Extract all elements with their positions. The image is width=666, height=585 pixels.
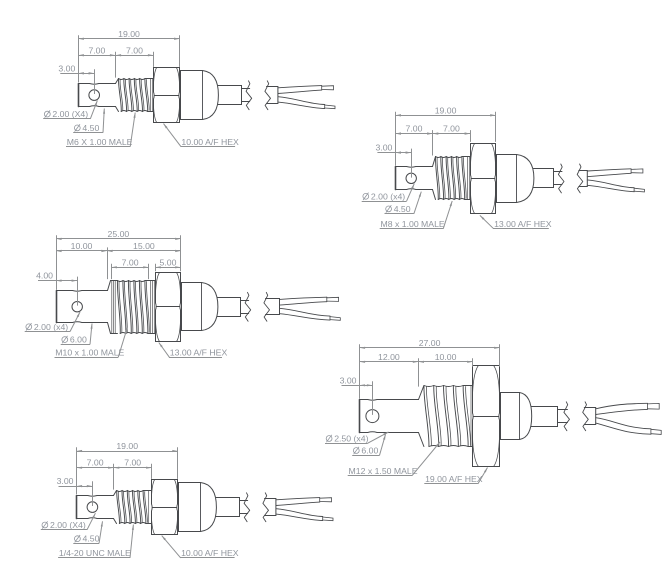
svg-text:2.00 (X4): 2.00 (X4) bbox=[50, 520, 86, 530]
dimension 25.00 (3 M10) bbox=[56, 229, 181, 240]
extension line (1 M6) bbox=[179, 35, 181, 67]
probe tip body (1 M6) bbox=[79, 84, 116, 107]
extension line (1 M6) bbox=[94, 69, 96, 94]
label 10.00 A/F HEX (5 quarter-20) bbox=[162, 536, 239, 559]
hex nut (2 M8) bbox=[471, 144, 496, 214]
extension line (1 M6) bbox=[115, 52, 117, 78]
label 19.00 A/F HEX (4 M12) bbox=[424, 468, 487, 485]
svg-text:25.00: 25.00 bbox=[108, 229, 130, 239]
svg-text:7.00: 7.00 bbox=[124, 458, 141, 468]
svg-text:19.00: 19.00 bbox=[116, 441, 138, 451]
sensor dome housing (4 M12) bbox=[501, 393, 532, 440]
svg-text:1/4-20 UNC MALE: 1/4-20 UNC MALE bbox=[59, 548, 131, 558]
svg-text:4.50: 4.50 bbox=[394, 204, 411, 214]
svg-text:2.00 (x4): 2.00 (x4) bbox=[34, 322, 68, 332]
extension line (3 M10) bbox=[56, 235, 58, 289]
wire breakout block (4 M12) bbox=[584, 408, 595, 425]
dimension 19.00 (5 quarter-20) bbox=[77, 441, 178, 452]
cable sleeve (1 M6) bbox=[218, 86, 242, 105]
external thread (5 quarter-20) bbox=[114, 491, 152, 524]
label 2.00 (X4) (1 M6) bbox=[43, 100, 97, 119]
svg-text:M12 x 1.50 MALE: M12 x 1.50 MALE bbox=[349, 466, 418, 476]
probe tip body (5 quarter-20) bbox=[77, 496, 114, 519]
svg-text:7.00: 7.00 bbox=[88, 45, 105, 55]
external thread (1 M6) bbox=[116, 79, 154, 112]
hex nut (5 quarter-20) bbox=[152, 480, 178, 535]
svg-text:7.00: 7.00 bbox=[87, 458, 104, 468]
lower lead wire (5 quarter-20) bbox=[276, 509, 333, 521]
external thread (4 M12) bbox=[419, 386, 473, 447]
cable with break symbol (5 quarter-20) bbox=[240, 493, 269, 522]
extension line (5 quarter-20) bbox=[92, 481, 94, 506]
label 10.00 A/F HEX (1 M6) bbox=[164, 124, 240, 147]
upper lead wire (1 M6) bbox=[278, 86, 334, 94]
label 2.00 (x4) (2 M8) bbox=[362, 184, 415, 202]
extension line (5 quarter-20) bbox=[113, 464, 115, 490]
extension line (2 M8) bbox=[395, 112, 397, 166]
extension line (5 quarter-20) bbox=[76, 447, 78, 494]
external thread (2 M8) bbox=[433, 157, 471, 200]
svg-text:6.00: 6.00 bbox=[361, 446, 378, 456]
svg-text:13.00 A/F HEX: 13.00 A/F HEX bbox=[494, 219, 552, 229]
dimension 3.00 (1 M6) bbox=[58, 63, 94, 74]
svg-text:2.50 (x4): 2.50 (x4) bbox=[334, 434, 368, 444]
svg-text:2.00 (X4): 2.00 (X4) bbox=[52, 109, 88, 119]
label 4.50 (2 M8) bbox=[385, 192, 422, 214]
label 13.00 A/F HEX (3 M10) bbox=[159, 343, 228, 358]
cable with break symbol (1 M6) bbox=[242, 81, 271, 110]
upper lead wire (4 M12) bbox=[596, 403, 660, 414]
extension line (2 M8) bbox=[411, 149, 413, 178]
wire breakout block (3 M10) bbox=[266, 299, 280, 315]
probe tip body (4 M12) bbox=[360, 400, 419, 433]
svg-text:13.00 A/F HEX: 13.00 A/F HEX bbox=[170, 348, 228, 358]
label 6.00 (3 M10) bbox=[61, 324, 93, 345]
cable sleeve (4 M12) bbox=[531, 407, 557, 427]
sensor dome housing (5 quarter-20) bbox=[179, 483, 217, 532]
hex nut (3 M10) bbox=[156, 273, 181, 342]
lower lead wire (4 M12) bbox=[596, 418, 662, 435]
svg-text:12.00: 12.00 bbox=[378, 352, 400, 362]
extension line (5 quarter-20) bbox=[177, 447, 179, 479]
hex nut (4 M12) bbox=[473, 366, 500, 467]
extension line (3 M10) bbox=[77, 277, 79, 306]
dimension 3.00 (4 M12) bbox=[340, 375, 373, 386]
label 6.00 (4 M12) bbox=[352, 435, 385, 456]
probe tip body (3 M10) bbox=[57, 291, 108, 323]
dimension 5.00 (3 M10) bbox=[155, 257, 181, 268]
label M8 x 1.00 MALE (2 M8) bbox=[380, 201, 453, 229]
svg-text:M10 x 1.00 MALE: M10 x 1.00 MALE bbox=[55, 348, 124, 358]
label 4.50 (5 quarter-20) bbox=[73, 521, 102, 543]
svg-text:15.00: 15.00 bbox=[133, 241, 155, 251]
upper lead wire (3 M10) bbox=[280, 297, 339, 305]
dimension 7.00 (1 M6) bbox=[116, 45, 154, 56]
svg-text:3.00: 3.00 bbox=[340, 375, 357, 385]
svg-text:19.00: 19.00 bbox=[118, 29, 140, 39]
wire breakout block (2 M8) bbox=[579, 171, 588, 187]
dimension 7.00 (2 M8) bbox=[433, 124, 471, 135]
svg-text:6.00: 6.00 bbox=[70, 335, 87, 345]
cross-drilled hole (5 quarter-20) bbox=[87, 502, 98, 513]
external thread (3 M10) bbox=[108, 281, 156, 334]
svg-text:2.00 (x4): 2.00 (x4) bbox=[371, 191, 405, 201]
svg-text:27.00: 27.00 bbox=[419, 338, 441, 348]
svg-text:3.00: 3.00 bbox=[57, 476, 74, 486]
cable sleeve (5 quarter-20) bbox=[216, 498, 240, 517]
svg-text:10.00: 10.00 bbox=[71, 241, 93, 251]
svg-text:M6 X 1.00 MALE: M6 X 1.00 MALE bbox=[67, 137, 133, 147]
probe tip body (2 M8) bbox=[396, 167, 433, 190]
svg-text:4.50: 4.50 bbox=[83, 534, 100, 544]
extension line (1 M6) bbox=[153, 52, 155, 67]
sensor dome housing (2 M8) bbox=[497, 155, 534, 203]
svg-text:7.00: 7.00 bbox=[443, 124, 460, 134]
dimension 3.00 (5 quarter-20) bbox=[57, 476, 93, 487]
cable sleeve (3 M10) bbox=[217, 298, 240, 317]
extension line (2 M8) bbox=[495, 112, 497, 142]
cross-drilled hole (1 M6) bbox=[89, 90, 100, 101]
label 2.00 (x4) (3 M10) bbox=[25, 312, 80, 332]
dimension 7.00 (2 M8) bbox=[395, 124, 432, 135]
label M6 X 1.00 MALE (1 M6) bbox=[66, 113, 136, 147]
extension line (3 M10) bbox=[111, 264, 113, 279]
lower lead wire (3 M10) bbox=[280, 308, 341, 320]
extension line (4 M12) bbox=[359, 344, 361, 398]
extension line (5 quarter-20) bbox=[151, 464, 153, 479]
dimension 10.00 (3 M10) bbox=[56, 241, 107, 252]
dimension 7.00 (1 M6) bbox=[78, 45, 115, 56]
dimension 15.00 (3 M10) bbox=[107, 241, 181, 252]
extension line (1 M6) bbox=[78, 35, 80, 82]
dimension 7.00 (3 M10) bbox=[111, 257, 149, 268]
dimension 3.00 (2 M8) bbox=[375, 143, 411, 154]
label M12 x 1.50 MALE (4 M12) bbox=[348, 442, 440, 476]
svg-text:M8 x 1.00 MALE: M8 x 1.00 MALE bbox=[381, 219, 445, 229]
lower lead wire (2 M8) bbox=[587, 180, 644, 192]
dimension 19.00 (2 M8) bbox=[395, 105, 495, 116]
extension line (4 M12) bbox=[418, 358, 420, 386]
label 2.00 (X4) (5 quarter-20) bbox=[41, 513, 96, 530]
dimension 7.00 (5 quarter-20) bbox=[114, 458, 152, 469]
cable with break symbol (2 M8) bbox=[554, 164, 583, 193]
cross-drilled hole (4 M12) bbox=[366, 410, 379, 423]
lower lead wire (1 M6) bbox=[278, 97, 335, 109]
svg-text:10.00: 10.00 bbox=[435, 352, 457, 362]
label 4.50 (1 M6) bbox=[73, 109, 105, 133]
extension line (2 M8) bbox=[432, 130, 434, 155]
wire breakout block (1 M6) bbox=[267, 87, 278, 104]
cable with break symbol (4 M12) bbox=[558, 402, 589, 431]
svg-text:19.00 A/F HEX: 19.00 A/F HEX bbox=[425, 474, 483, 484]
extension line (3 M10) bbox=[107, 247, 109, 279]
cable sleeve (2 M8) bbox=[533, 169, 553, 188]
svg-text:10.00 A/F HEX: 10.00 A/F HEX bbox=[181, 137, 239, 147]
label M10 x 1.00 MALE (3 M10) bbox=[55, 327, 128, 358]
svg-text:7.00: 7.00 bbox=[122, 257, 139, 267]
hex nut (1 M6) bbox=[154, 68, 180, 123]
upper lead wire (2 M8) bbox=[587, 169, 643, 177]
extension line (4 M12) bbox=[472, 358, 474, 366]
extension line (2 M8) bbox=[470, 130, 472, 142]
cable with break symbol (3 M10) bbox=[241, 292, 270, 321]
extension line (3 M10) bbox=[148, 264, 150, 279]
svg-text:19.00: 19.00 bbox=[435, 105, 457, 115]
dimension 7.00 (5 quarter-20) bbox=[77, 458, 114, 469]
svg-text:10.00 A/F HEX: 10.00 A/F HEX bbox=[181, 548, 239, 558]
svg-text:7.00: 7.00 bbox=[406, 124, 423, 134]
wire breakout block (5 quarter-20) bbox=[265, 499, 276, 516]
label 13.00 A/F HEX (2 M8) bbox=[480, 215, 552, 229]
label 1/4-20 UNC MALE (5 quarter-20) bbox=[58, 525, 134, 559]
label 2.50 (x4) (4 M12) bbox=[325, 432, 389, 444]
extension line (3 M10) bbox=[180, 235, 182, 271]
extension line (3 M10) bbox=[155, 264, 157, 272]
dimension 19.00 (1 M6) bbox=[78, 29, 179, 40]
dimension 12.00 (4 M12) bbox=[360, 352, 419, 363]
svg-text:7.00: 7.00 bbox=[126, 45, 143, 55]
svg-text:5.00: 5.00 bbox=[160, 257, 177, 267]
svg-text:3.00: 3.00 bbox=[58, 63, 75, 73]
extension line (4 M12) bbox=[372, 381, 374, 415]
upper lead wire (5 quarter-20) bbox=[276, 498, 332, 506]
dimension 10.00 (4 M12) bbox=[418, 352, 472, 363]
svg-text:4.50: 4.50 bbox=[82, 123, 99, 133]
dimension 4.00 (3 M10) bbox=[36, 271, 77, 282]
sensor dome housing (3 M10) bbox=[182, 283, 218, 331]
svg-text:3.00: 3.00 bbox=[375, 143, 392, 153]
extension line (4 M12) bbox=[499, 344, 501, 366]
sensor dome housing (1 M6) bbox=[181, 71, 219, 120]
cross-drilled hole (2 M8) bbox=[406, 173, 416, 183]
svg-text:4.00: 4.00 bbox=[36, 271, 53, 281]
cross-drilled hole (3 M10) bbox=[72, 302, 82, 312]
dimension 27.00 (4 M12) bbox=[360, 338, 500, 349]
